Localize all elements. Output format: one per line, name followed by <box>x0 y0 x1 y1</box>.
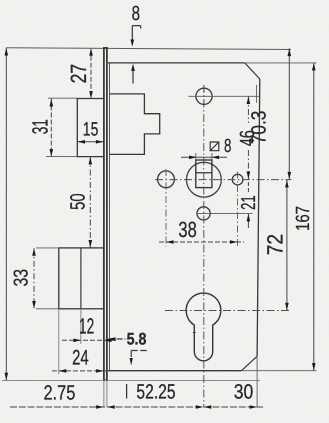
latch bolt head outline <box>109 94 159 154</box>
wire top hole vertical centerline <box>203 86 205 108</box>
arrow 21 bottom outside <box>247 214 251 222</box>
arrow 24 left <box>59 369 67 373</box>
dimension 12 line <box>62 339 118 341</box>
dimension 38 line <box>159 241 244 243</box>
wire cylinder horizontal centerline <box>165 310 291 312</box>
wire bottom hole extension right <box>197 213 253 215</box>
arrow 167 top <box>312 63 316 71</box>
tick on keyhole neck left edge <box>193 332 196 334</box>
leader for 5.8: arrow pointing left at faceplate <box>109 338 126 340</box>
arrow 33 bottom <box>32 301 36 309</box>
left hole <box>158 171 175 188</box>
arrow square8 left outside <box>189 156 197 160</box>
arrow 12 right outside <box>104 339 112 343</box>
bottom hole <box>197 207 210 220</box>
arrow 27 bottom <box>89 91 93 99</box>
dimension 50 line <box>89 157 91 248</box>
arrow 31 bottom <box>50 149 54 157</box>
arrow 70.3 bottom <box>288 172 292 180</box>
arrow 38 left <box>166 240 174 244</box>
lock case bottom edge <box>108 370 242 372</box>
arrow 24 right <box>96 369 104 373</box>
spindle square hole <box>196 160 212 188</box>
arrow 15 right <box>96 140 104 144</box>
wire block left-edge extension down for 24 <box>58 309 60 374</box>
arrow 167 bottom <box>312 363 316 371</box>
dimension 70.3 line <box>288 48 290 179</box>
spindle follower circle <box>187 162 222 197</box>
dimension 31 line <box>50 99 52 157</box>
wire block mid-line extension down for 12 <box>80 309 82 344</box>
latch block outline left of plate <box>77 99 103 157</box>
wire top hole horizontal centerline <box>189 95 261 97</box>
dimension 21 line below <box>247 214 249 228</box>
arrow 52.25 right <box>196 405 204 409</box>
arrow 2.75 left outside <box>96 405 104 409</box>
wire faceplate edge extensions to bottom dim row <box>103 380 105 407</box>
leader for 8 top: bent line <box>132 26 140 41</box>
arrow 30 right <box>250 405 258 409</box>
lock case right edge <box>257 79 260 356</box>
lock case bottom-right chamfer <box>242 356 258 370</box>
arrow 50 bottom <box>89 240 93 248</box>
wire spindle horizontal centerline <box>155 179 291 181</box>
arrow 72 top <box>285 180 289 188</box>
wire main vertical centerline <box>203 85 205 408</box>
dimension 27 line <box>90 49 92 99</box>
arrow 33 top <box>32 248 36 256</box>
wire case bottom extension to 167 <box>242 370 317 372</box>
arrow left overall top <box>5 48 9 56</box>
dimension left overall: vertical line <box>5 48 7 380</box>
dimension 15 line <box>77 141 103 143</box>
wire lower block top extension <box>36 247 59 249</box>
scan noise overlay <box>0 0 1 1</box>
lock case top-right chamfer <box>245 63 260 79</box>
arrow square8 right outside <box>212 156 220 160</box>
label square8 symbol <box>210 142 219 151</box>
wire latch block bottom extension <box>46 156 77 158</box>
wire left hole vertical centerline down <box>165 169 167 247</box>
leader 5.8 second bent arrow <box>131 351 148 359</box>
leader 8 arrow down <box>131 40 135 47</box>
lock case left edge <box>109 63 111 371</box>
arrow left overall bottom <box>5 373 9 381</box>
dimension 33 line <box>33 248 35 308</box>
faceplate top cap <box>103 47 108 49</box>
right hole <box>232 174 243 185</box>
spindle square mid horizontal <box>196 172 212 174</box>
faceplate back line <box>106 48 108 381</box>
arrow 46 top <box>247 97 251 105</box>
wire faceplate bottom extension line <box>2 379 260 381</box>
arrow 46 bottom / 21 top <box>247 172 251 180</box>
arrow 8 bottom up (at case top) <box>131 64 135 71</box>
wire square8 extension ticks <box>195 153 197 161</box>
dimension 167 line <box>313 63 315 371</box>
wire case edge extension to bottom dim row <box>256 356 258 407</box>
faceplate front line <box>103 48 105 381</box>
arrow 15 left <box>78 140 86 144</box>
top hole <box>196 88 212 104</box>
wire 8 bottom arrow tail <box>132 70 134 84</box>
dimension 24 line <box>52 370 112 372</box>
lower block middle line <box>80 248 82 309</box>
arrow 12 left outside <box>73 339 81 343</box>
wire faceplate top extension line <box>6 48 291 50</box>
lower block outline <box>59 248 104 309</box>
arrow 38 right <box>230 240 238 244</box>
dimension 72 line <box>286 180 288 311</box>
arrow 50 top <box>89 157 93 165</box>
wire short line near 70.3 <box>256 85 258 103</box>
wire lower block bottom extension <box>36 308 59 310</box>
wire tick left of 52.25 <box>126 384 128 399</box>
faceplate bottom cap <box>103 379 108 381</box>
dimension square8 line <box>181 156 227 158</box>
dimension 46 line <box>247 97 249 124</box>
arrow 30 left <box>204 405 212 409</box>
arrow 70.3 top <box>288 49 292 57</box>
euro profile cylinder hole (keyhole silhouette) <box>186 293 221 361</box>
dimension bottom row line <box>10 406 263 408</box>
arrow 27 top <box>89 48 93 56</box>
wire right hole vertical dashes <box>237 172 239 247</box>
arrow 31 top <box>50 99 54 107</box>
wire case top extension to 167 <box>245 62 317 64</box>
wire latch block top extension <box>48 97 77 99</box>
arrow 2.75 right outside / 52.25 left <box>107 405 115 409</box>
lock case top edge <box>108 62 245 64</box>
arrow 72 bottom <box>285 303 289 311</box>
